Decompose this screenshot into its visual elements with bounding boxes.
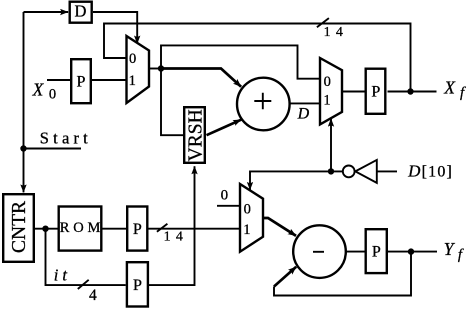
svg-text:D: D	[74, 1, 86, 20]
svg-text:0: 0	[221, 187, 229, 203]
svg-text:14: 14	[324, 25, 349, 40]
svg-text:1: 1	[129, 73, 136, 89]
svg-text:f: f	[458, 247, 464, 263]
svg-text:it: it	[54, 266, 71, 285]
svg-text:Y: Y	[444, 239, 456, 259]
svg-text:4: 4	[89, 287, 97, 304]
svg-text:P: P	[133, 277, 142, 294]
svg-text:P: P	[372, 244, 381, 261]
svg-text:P: P	[133, 221, 142, 238]
svg-text:D: D	[407, 162, 421, 181]
svg-text:14: 14	[164, 230, 189, 245]
svg-text:1: 1	[243, 222, 250, 238]
svg-text:D: D	[297, 105, 310, 122]
svg-text:P: P	[77, 74, 86, 91]
svg-text:ROM: ROM	[60, 220, 104, 236]
svg-text:Start: Start	[40, 129, 92, 148]
svg-text:1: 1	[323, 93, 330, 109]
svg-text:CNTR: CNTR	[9, 201, 30, 253]
svg-text:0: 0	[324, 74, 331, 90]
svg-text:0: 0	[49, 87, 56, 103]
svg-text:X: X	[32, 79, 45, 99]
svg-text:[10]: [10]	[422, 164, 453, 181]
svg-text:P: P	[371, 84, 380, 101]
svg-text:VRSH: VRSH	[186, 109, 207, 161]
svg-text:0: 0	[244, 201, 251, 217]
svg-text:X: X	[443, 78, 456, 98]
svg-text:0: 0	[129, 51, 136, 67]
svg-text:f: f	[460, 85, 466, 101]
